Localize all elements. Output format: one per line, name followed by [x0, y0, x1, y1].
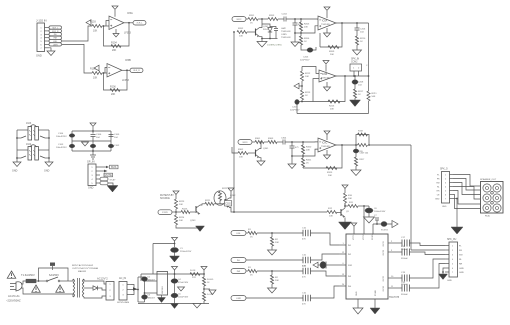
svg-text:OUT4: OUT4: [383, 285, 385, 291]
svg-text:C105: C105: [114, 134, 120, 136]
wire to IC5A minus: [106, 21, 109, 27]
svg-text:C10: C10: [302, 266, 307, 268]
svg-text:R1: R1: [248, 267, 252, 269]
wire: [302, 167, 304, 168]
AC_IN pin 2: [127, 289, 131, 291]
wire jack J103 switch right: [45, 137, 49, 139]
svg-text:R-LED: R-LED: [207, 279, 214, 281]
transistor Q301: [255, 150, 257, 157]
svg-text:RCA: RCA: [485, 215, 490, 218]
power VCC LED: [201, 267, 207, 271]
diode D1: [93, 286, 98, 290]
wire CON2 pin1: [353, 71, 355, 76]
J101 pin 6: [45, 43, 50, 45]
node Q301 collector: [260, 141, 262, 143]
svg-text:D3: D3: [148, 295, 152, 297]
node feedback tap ch3: [341, 144, 343, 146]
wire: [140, 274, 142, 281]
node LED: [203, 288, 205, 290]
svg-text:1K: 1K: [358, 94, 361, 96]
RCA jack ring: [493, 184, 501, 192]
switch S1: [47, 277, 58, 281]
svg-text:R315: R315: [327, 172, 333, 174]
IC1 left pin 12: [339, 253, 346, 255]
svg-text:ST-BY: ST-BY: [372, 234, 374, 240]
wire AC_IN pin1: [131, 285, 134, 290]
node feedback ch1: [300, 32, 302, 34]
svg-text:GND: GND: [36, 54, 42, 58]
SPK_OUT pin 2: [445, 249, 449, 251]
connector CON3: [106, 282, 114, 301]
node feedback tap ch1: [341, 22, 343, 24]
svg-text:1K: 1K: [306, 163, 309, 165]
warning symbol 2: [32, 285, 41, 292]
resistor R104: [111, 44, 121, 47]
svg-text:CON2: CON2: [351, 62, 358, 64]
resistor R10: [343, 193, 346, 203]
wire VCC rail: [141, 273, 204, 275]
capacitor C20: [402, 285, 410, 292]
svg-text:1K: 1K: [304, 41, 307, 43]
svg-text:FR: FR: [437, 179, 440, 181]
svg-text:1K: 1K: [207, 282, 210, 284]
jack J103 body: [28, 127, 32, 141]
svg-text:R106: R106: [110, 86, 116, 89]
IC1 right pin 10: [388, 277, 402, 279]
wire rectifier bottom: [138, 301, 145, 303]
svg-text:AC12V*2: AC12V*2: [97, 277, 108, 281]
svg-text:D-ON: D-ON: [207, 294, 213, 296]
resistor R302: [238, 151, 248, 154]
ground LED: [209, 290, 216, 295]
wire Q301 collector: [260, 142, 262, 149]
svg-text:J103: J103: [26, 122, 32, 125]
svg-text:20K: 20K: [330, 54, 334, 56]
wire Q3 emitter: [344, 218, 346, 223]
svg-text:20K: 20K: [306, 150, 310, 152]
svg-text:56K: 56K: [372, 96, 376, 98]
svg-text:C304: C304: [281, 138, 287, 140]
svg-text:R206: R206: [304, 38, 310, 40]
ground Q3 filled: [339, 222, 352, 230]
capacitor C202: [293, 23, 298, 25]
wire jack J104 switch left: [17, 157, 21, 159]
svg-text:~220V/50HZ: ~220V/50HZ: [6, 299, 21, 303]
wire: [246, 18, 248, 20]
connector SPK_O header: [442, 172, 450, 204]
wire: [318, 264, 320, 266]
svg-text:AC-PLUG: AC-PLUG: [8, 294, 20, 298]
op-amp IC6B: [319, 70, 336, 82]
net label LINL: [49, 39, 62, 42]
svg-text:1N4007: 1N4007: [148, 298, 156, 300]
svg-text:VCC2: VCC2: [363, 234, 365, 240]
wire AC_IN pin2: [131, 289, 138, 291]
op-amp IC5B: [107, 64, 122, 78]
wire: [368, 213, 370, 217]
resistor R217: [353, 89, 356, 98]
wire: [302, 142, 304, 145]
resistor R206: [299, 36, 302, 45]
resistor R211: [367, 91, 370, 101]
ground zobel ch3: [351, 170, 361, 176]
wire jacks right ground rail: [48, 130, 50, 162]
wire rectifier to regulator in: [145, 280, 158, 282]
svg-text:TDA7375: TDA7375: [389, 296, 400, 299]
net label ST-BY: [158, 210, 172, 215]
svg-text:C309 104: C309 104: [360, 153, 370, 155]
svg-text:LINR: LINR: [236, 298, 241, 300]
power VCC Q202: [228, 188, 234, 192]
wire IC6C output: [336, 144, 358, 146]
wire: [300, 19, 302, 22]
svg-text:IC6A: IC6A: [322, 20, 328, 23]
connector CON2: [350, 64, 362, 71]
op-amp IC6A: [318, 16, 336, 30]
IC1 right pin 3: [388, 251, 402, 253]
wire SPK_O 4 to RCA: [453, 187, 481, 200]
wire rectifier left rail: [137, 277, 139, 302]
capacitor coupling LINR: [303, 295, 311, 301]
svg-text:R301: R301: [255, 138, 261, 140]
wire decoupling bottom rail: [72, 150, 111, 152]
wire SP_IN pin5 to ground: [108, 183, 113, 186]
wire jack J104 left: [17, 149, 28, 151]
wire left column: [71, 131, 73, 151]
transistor Q201: [255, 29, 257, 36]
J101 pin 7: [45, 47, 50, 49]
svg-text:Q301: Q301: [263, 148, 269, 150]
wire switch bypass: [39, 268, 69, 281]
svg-text:SPK_O: SPK_O: [440, 169, 448, 171]
ground Q201 cluster: [257, 42, 267, 48]
svg-text:6A/250V: 6A/250V: [49, 273, 59, 277]
AC plug: [10, 284, 16, 290]
svg-text:SOURCE: SOURCE: [160, 198, 170, 200]
wire bias bottom rail: [176, 225, 200, 228]
capacitor C106: [91, 135, 96, 137]
net label LINL: [231, 231, 246, 236]
RCA jack block: [481, 182, 504, 214]
svg-text:10K: 10K: [179, 220, 183, 222]
jack J104 switch contact left: [21, 156, 26, 158]
wire rail to connector: [411, 249, 445, 251]
svg-text:1K: 1K: [250, 23, 253, 25]
transistor Q202: [224, 199, 226, 206]
svg-text:R103: R103: [90, 21, 96, 24]
svg-text:10K: 10K: [239, 157, 243, 159]
node feedback ch3: [302, 155, 304, 157]
svg-text:INPUT:AC220V/50HZ: INPUT:AC220V/50HZ: [72, 264, 94, 267]
arrow ST-BY in: [392, 221, 398, 228]
svg-text:R320: R320: [306, 147, 312, 149]
wire IC6A gnd: [326, 28, 328, 33]
node IC5A inverting input: [103, 25, 105, 27]
node feedback ch2: [301, 101, 303, 103]
wire: [297, 101, 302, 103]
wire to Q202: [220, 203, 224, 205]
ground GND J101: [47, 51, 55, 56]
wire to IC6A input: [286, 19, 318, 20]
diode D1 mark: [133, 287, 137, 291]
svg-text:GM2: GM2: [281, 28, 287, 30]
svg-text:10K: 10K: [93, 30, 98, 33]
node IC5B inverting input: [103, 72, 105, 74]
svg-text:470: 470: [302, 239, 306, 241]
capacitor C18: [402, 249, 410, 256]
node supply: [344, 205, 346, 207]
svg-text:C106: C106: [96, 134, 102, 136]
wire: [376, 220, 378, 224]
SP_IN pin 5: [96, 182, 100, 184]
net label XLR_R out: [130, 68, 143, 72]
svg-text:SW: SW: [459, 255, 463, 257]
wire ch2 bottom rail: [297, 113, 369, 115]
node ch2 input: [301, 85, 303, 87]
svg-text:AC_IN: AC_IN: [119, 277, 126, 280]
capacitor C7: [375, 218, 379, 220]
wire supply feed: [344, 189, 346, 194]
svg-text:SPK_OU: SPK_OU: [447, 239, 457, 241]
connector AC_IN: [119, 282, 127, 301]
net label pin4: [100, 177, 108, 181]
node INR divider: [271, 270, 273, 272]
RCA jack ring: [483, 184, 491, 192]
resistor R213: [300, 90, 303, 100]
node diode junction: [269, 38, 271, 40]
wire to AGND: [92, 151, 94, 155]
resistor divider LINL: [270, 237, 273, 246]
svg-text:10K: 10K: [239, 36, 243, 38]
node zobel tap ch1: [356, 22, 358, 24]
RCA center hole: [491, 202, 494, 205]
power VCC IC6B: [323, 61, 329, 65]
ground IC5A: [113, 34, 119, 38]
svg-text:100uF/16V: 100uF/16V: [178, 297, 189, 299]
ground C6: [364, 217, 375, 223]
svg-text:C204: C204: [282, 14, 288, 16]
net label MIC3: [238, 140, 252, 145]
wire: [271, 233, 273, 237]
svg-text:XLR_R: XLR_R: [133, 70, 140, 72]
svg-text:SP_IN: SP_IN: [87, 160, 95, 164]
wire primary bottom: [70, 294, 73, 297]
wire OUT3 to connector: [410, 259, 446, 278]
arrow SP_IN pin2: [100, 170, 104, 172]
svg-text:GND: GND: [442, 206, 447, 208]
wire OUT1 to connector: [410, 243, 446, 246]
wire decoupling top rail: [72, 130, 111, 132]
SPK_O pin 6: [450, 194, 454, 196]
wire: [345, 203, 348, 206]
wire Q201 collector: [260, 19, 263, 28]
svg-text:OUT3: OUT3: [383, 275, 385, 281]
node gnd spk: [456, 198, 458, 200]
svg-text:10K: 10K: [329, 216, 333, 218]
wire INR to pin: [311, 271, 340, 276]
svg-text:IC6C: IC6C: [322, 143, 328, 145]
node: [48, 157, 50, 159]
arrow SP_IN pin1: [106, 166, 109, 168]
svg-text:TS924IN: TS924IN: [321, 24, 330, 26]
net label XLR_R: [49, 29, 62, 32]
wire: [301, 100, 303, 102]
resistor R106: [110, 88, 120, 91]
wire Q301 emitter: [260, 158, 262, 161]
resistor R221: [205, 202, 214, 205]
svg-text:ST-BY: ST-BY: [162, 212, 168, 214]
capacitor C205: [307, 48, 313, 53]
transformer T1 secondary: [83, 279, 85, 297]
svg-text:R224: R224: [179, 217, 185, 219]
svg-text:R2: R2: [275, 239, 279, 241]
diode D201: [268, 28, 272, 33]
node bottom rail: [92, 150, 94, 152]
wire IC6B feedback: [302, 76, 345, 102]
AC_IN pin 3: [127, 294, 131, 296]
wire: [203, 274, 205, 277]
node IC1 vcc feed: [363, 205, 365, 207]
ground mid: [82, 142, 89, 146]
wire IC6C V+: [326, 135, 328, 141]
svg-text:C104: C104: [58, 133, 64, 135]
resistor R-LED: [202, 277, 205, 286]
net label INL: [231, 258, 246, 263]
wire vertical to VCC rail: [152, 244, 154, 275]
wire R202 to Q201 base: [247, 31, 256, 33]
wire: [300, 31, 302, 36]
wire: [261, 39, 263, 42]
IC1 bottom pin gnd2: [374, 299, 376, 308]
ground C302: [288, 164, 296, 169]
svg-text:2200uF/25V: 2200uF/25V: [180, 251, 192, 253]
wire: [190, 211, 195, 213]
wire switch label stem: [52, 266, 54, 270]
net label INR: [231, 269, 246, 274]
svg-text:R318: R318: [358, 131, 364, 133]
svg-text:20K: 20K: [304, 27, 308, 29]
capacitor C207: [295, 100, 300, 105]
SPK_O pin 5: [450, 190, 454, 192]
ground bottom filled: [171, 304, 179, 309]
power VCC supply feed: [342, 185, 348, 189]
svg-text:LM7812: LM7812: [162, 285, 164, 293]
svg-text:C4R5: C4R5: [281, 34, 287, 36]
wire: [292, 155, 303, 157]
net label MUTE: [104, 173, 113, 177]
amplifier IC1 TDA7375: [346, 234, 388, 299]
wire SPK_O gnd: [453, 198, 457, 200]
node: [294, 18, 296, 20]
wire: [291, 142, 293, 146]
wire Q203 collector: [200, 204, 205, 205]
svg-text:IC6B: IC6B: [322, 74, 328, 76]
svg-text:C10: C10: [302, 228, 307, 230]
resistor R209: [328, 45, 339, 48]
wire Q201 emitter: [260, 37, 263, 39]
wire: [246, 232, 248, 234]
resistor R315: [326, 166, 337, 169]
wire: [301, 45, 308, 50]
capacitor C5: [171, 293, 178, 298]
svg-text:C19: C19: [401, 272, 406, 274]
svg-text:R302: R302: [238, 149, 244, 151]
node CON2 pin1: [353, 75, 355, 77]
connector J101: [37, 23, 45, 52]
resistor inside R222: [218, 192, 221, 201]
node Q201 collector: [261, 18, 263, 20]
svg-text:INR: INR: [237, 271, 241, 273]
warning symbol 1: [7, 271, 16, 278]
regulator U2 LM7812: [157, 272, 168, 296]
wire: [301, 67, 303, 72]
wire right column: [110, 131, 112, 151]
wire: [264, 141, 268, 143]
node LINL divider: [271, 232, 273, 234]
wire regulator gnd in: [145, 292, 158, 294]
node feedback tap ch2: [344, 75, 346, 77]
SP_IN pin 1: [96, 166, 100, 168]
SP_IN pin 4: [96, 178, 100, 180]
capacitor C204: [284, 17, 286, 22]
wire cluster bottom rail: [262, 38, 278, 40]
wire to IC5B minus: [105, 68, 107, 74]
svg-text:TS924IN: TS924IN: [321, 146, 330, 148]
svg-text:FL: FL: [459, 246, 462, 248]
resistor R-ON: [190, 272, 200, 275]
capacitor C302: [290, 146, 295, 148]
wire jack J104 switch right: [45, 157, 49, 159]
resistor R224: [174, 215, 177, 225]
ground zobel ch2 filled: [350, 100, 361, 107]
svg-text:20K: 20K: [112, 49, 117, 52]
capacitor C19: [402, 275, 410, 282]
transistor Q3: [340, 209, 342, 216]
IC1 top pin c: [372, 224, 374, 234]
net label XLR_L out: [133, 21, 146, 25]
resistor R12: [327, 210, 337, 213]
ground bias filled: [196, 226, 205, 232]
resistor R301: [255, 140, 264, 143]
IC1 right pin 2: [388, 242, 402, 244]
wire decoupling mid rail: [72, 140, 111, 142]
svg-text:GND: GND: [435, 199, 440, 201]
svg-text:1K: 1K: [250, 237, 253, 239]
wire: [295, 32, 301, 34]
wire SVR to pin: [326, 264, 339, 266]
svg-text:R225: R225: [182, 209, 188, 211]
node zobel ch2: [354, 75, 356, 77]
svg-text:RR: RR: [459, 264, 463, 266]
wire: [312, 47, 316, 50]
svg-text:R10: R10: [348, 195, 353, 197]
svg-text:LINR: LINR: [53, 44, 58, 46]
svg-text:LF353: LF353: [124, 32, 131, 35]
wire: [271, 271, 273, 275]
wire: [356, 30, 358, 36]
wire: [355, 166, 357, 170]
ground C4: [178, 287, 185, 291]
node top rail: [92, 130, 94, 132]
wire secondary 1: [84, 279, 106, 284]
wire: [174, 270, 176, 274]
node R pair left: [355, 144, 357, 146]
wire secondary 3: [84, 296, 106, 298]
capacitor C304: [283, 140, 285, 145]
power VCC C1: [172, 238, 178, 242]
svg-text:C1: C1: [180, 248, 184, 250]
wire: [291, 156, 293, 164]
